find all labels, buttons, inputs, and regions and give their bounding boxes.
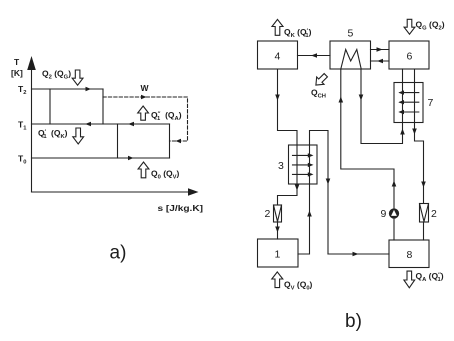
arrow up into box5 — [339, 97, 344, 103]
hollow up arrow QK above box4 — [272, 19, 283, 35]
hollow down arrow Q2 — [72, 70, 83, 85]
hollow up arrow Q''1 — [138, 106, 149, 120]
arrow into box 6 — [377, 47, 383, 52]
arrow left at end of dashed W line — [176, 139, 182, 143]
wire box5 to box6 upper — [371, 49, 390, 51]
arrow into box 5 — [377, 59, 383, 64]
arrow right into box8 — [353, 252, 359, 257]
arrow down below box7 — [412, 129, 417, 135]
arrow down below box4 — [275, 95, 280, 101]
hollow diagonal arrow QCH — [316, 74, 328, 86]
label 2 left — [265, 208, 271, 220]
s axis (horizontal) — [32, 191, 193, 193]
label QG (Q2) — [416, 20, 445, 32]
label 5 — [348, 28, 354, 40]
wire valve2 right to box8 — [423, 222, 425, 240]
arrows inside box 3 — [293, 153, 314, 176]
wire valve2 left to box1 — [277, 222, 279, 239]
wire box4 down to box3 — [278, 69, 298, 145]
box 6 — [389, 41, 429, 69]
box 1 — [258, 239, 299, 267]
upper cycle left vertical — [49, 89, 51, 124]
arrow down below box3 — [295, 185, 300, 191]
wire box7 up to box6 left pipe — [402, 69, 404, 123]
tick label T1 — [18, 120, 27, 132]
svg-text:8: 8 — [407, 249, 413, 261]
svg-text:QV (Q0): QV (Q0) — [284, 280, 313, 292]
hollow up arrow QV below box1 — [272, 272, 283, 288]
svg-text:QG (Q2): QG (Q2) — [416, 20, 445, 32]
svg-text:[K]: [K] — [11, 68, 23, 78]
T axis arrowhead — [27, 56, 36, 70]
svg-text:T: T — [14, 57, 20, 67]
wire box5 to box4 — [298, 55, 331, 57]
wire box6 to box5 lower — [371, 60, 390, 62]
zigzag inside box 5 — [341, 50, 361, 70]
svg-text:Q0 (QV): Q0 (QV) — [151, 169, 180, 181]
svg-text:a): a) — [110, 243, 127, 264]
hollow down arrow Q'1 — [73, 128, 84, 144]
arrow down above valve2 right — [421, 182, 426, 188]
T0 isotherm line — [32, 157, 170, 159]
svg-text:QK (Q′1): QK (Q′1) — [284, 27, 312, 39]
pump 9 (circle) — [389, 209, 398, 218]
wire box6 down through box7 to valve2 right — [415, 69, 424, 204]
wire box3 top jog to down line — [310, 131, 329, 255]
wire through box3 down — [296, 145, 298, 184]
label QK (Q'1) — [284, 27, 312, 39]
lower cycle right vertical — [169, 124, 171, 158]
svg-text:T0: T0 — [18, 154, 26, 166]
hollow down arrow QA below box8 — [404, 271, 415, 288]
hollow down arrow QG above box6 — [404, 19, 415, 34]
label Q''1 (QA) — [151, 110, 182, 122]
label 7 — [428, 97, 434, 109]
box 8 — [389, 240, 429, 268]
label QA (Q''1) — [416, 271, 444, 283]
arrow into box 4 — [311, 53, 317, 58]
arrow right on dashed W line — [141, 95, 147, 99]
arrows inside box 7 — [398, 90, 419, 114]
svg-text:s [J/kg.K]: s [J/kg.K] — [158, 203, 204, 213]
label Q'1 (QK) — [38, 128, 68, 140]
label 9 — [381, 208, 387, 220]
box 5 — [330, 41, 371, 69]
wire into box8 — [328, 253, 389, 255]
arrow left on T1 line (upper cycle) — [85, 122, 91, 126]
tick label T0 — [18, 154, 26, 166]
svg-text:Q′1 (QK): Q′1 (QK) — [38, 128, 68, 140]
caption b) — [345, 311, 362, 332]
caption a) — [110, 243, 127, 264]
hollow up arrow Q0 — [138, 162, 149, 178]
arrow up into box3 — [307, 211, 312, 217]
svg-text:2: 2 — [265, 208, 271, 220]
wire box3 to valve2 left — [278, 184, 298, 205]
tick label T2 — [18, 84, 26, 96]
box 4 — [258, 41, 298, 69]
box 7 (heat exchanger) — [394, 83, 423, 123]
svg-text:QCH: QCH — [311, 88, 326, 100]
wire box1 up through box3 — [298, 145, 310, 254]
lower cycle mid vertical — [117, 124, 119, 158]
dashed work line W — [103, 97, 188, 141]
s axis arrowhead — [188, 188, 199, 195]
label Q0 (QV) — [151, 169, 180, 181]
svg-text:5: 5 — [348, 28, 354, 40]
box 3 (heat exchanger) — [289, 145, 318, 184]
svg-text:1: 1 — [275, 249, 281, 261]
label QV (Q0) — [284, 280, 313, 292]
svg-text:9: 9 — [381, 208, 387, 220]
T2 isotherm line — [32, 88, 104, 90]
arrow up into box7 — [400, 129, 405, 135]
arrow right on T2 line — [86, 87, 92, 91]
svg-text:3: 3 — [278, 160, 284, 172]
arrow down below box5 — [359, 95, 364, 101]
svg-text:6: 6 — [407, 51, 413, 63]
T1 isotherm line — [32, 123, 170, 125]
svg-text:7: 7 — [428, 97, 434, 109]
svg-text:Q2 (QG): Q2 (QG) — [42, 69, 71, 81]
svg-text:Q″1 (QA): Q″1 (QA) — [151, 110, 182, 122]
axis label T [K] — [11, 57, 23, 78]
svg-text:4: 4 — [275, 51, 281, 63]
T axis (vertical) — [31, 63, 33, 192]
arrow up above pump — [392, 181, 397, 187]
svg-text:b): b) — [345, 311, 362, 332]
svg-text:T2: T2 — [18, 84, 26, 96]
label 3 — [278, 160, 284, 172]
arrow down into box1 — [275, 227, 280, 233]
arrow down on jog line — [326, 179, 331, 185]
axis label s [J/kg.K] — [158, 203, 204, 213]
svg-text:2: 2 — [431, 208, 437, 220]
arrow left on T1 line (lower cycle) — [128, 122, 134, 126]
valve 2 right — [420, 204, 429, 223]
label QCH — [311, 88, 326, 100]
svg-text:QA (Q″1): QA (Q″1) — [416, 271, 444, 283]
upper cycle right vertical — [102, 89, 104, 124]
label W — [141, 83, 150, 93]
valve 2 left — [274, 205, 282, 222]
wire box8 through pump 9 up to box5 — [393, 218, 395, 240]
arrow right on T0 line — [128, 156, 134, 160]
wire box5 down to box7 — [361, 69, 403, 144]
svg-text:W: W — [141, 83, 150, 93]
label 2 right — [431, 208, 437, 220]
label Q2 (QG) — [42, 69, 71, 81]
svg-text:T1: T1 — [18, 120, 27, 132]
